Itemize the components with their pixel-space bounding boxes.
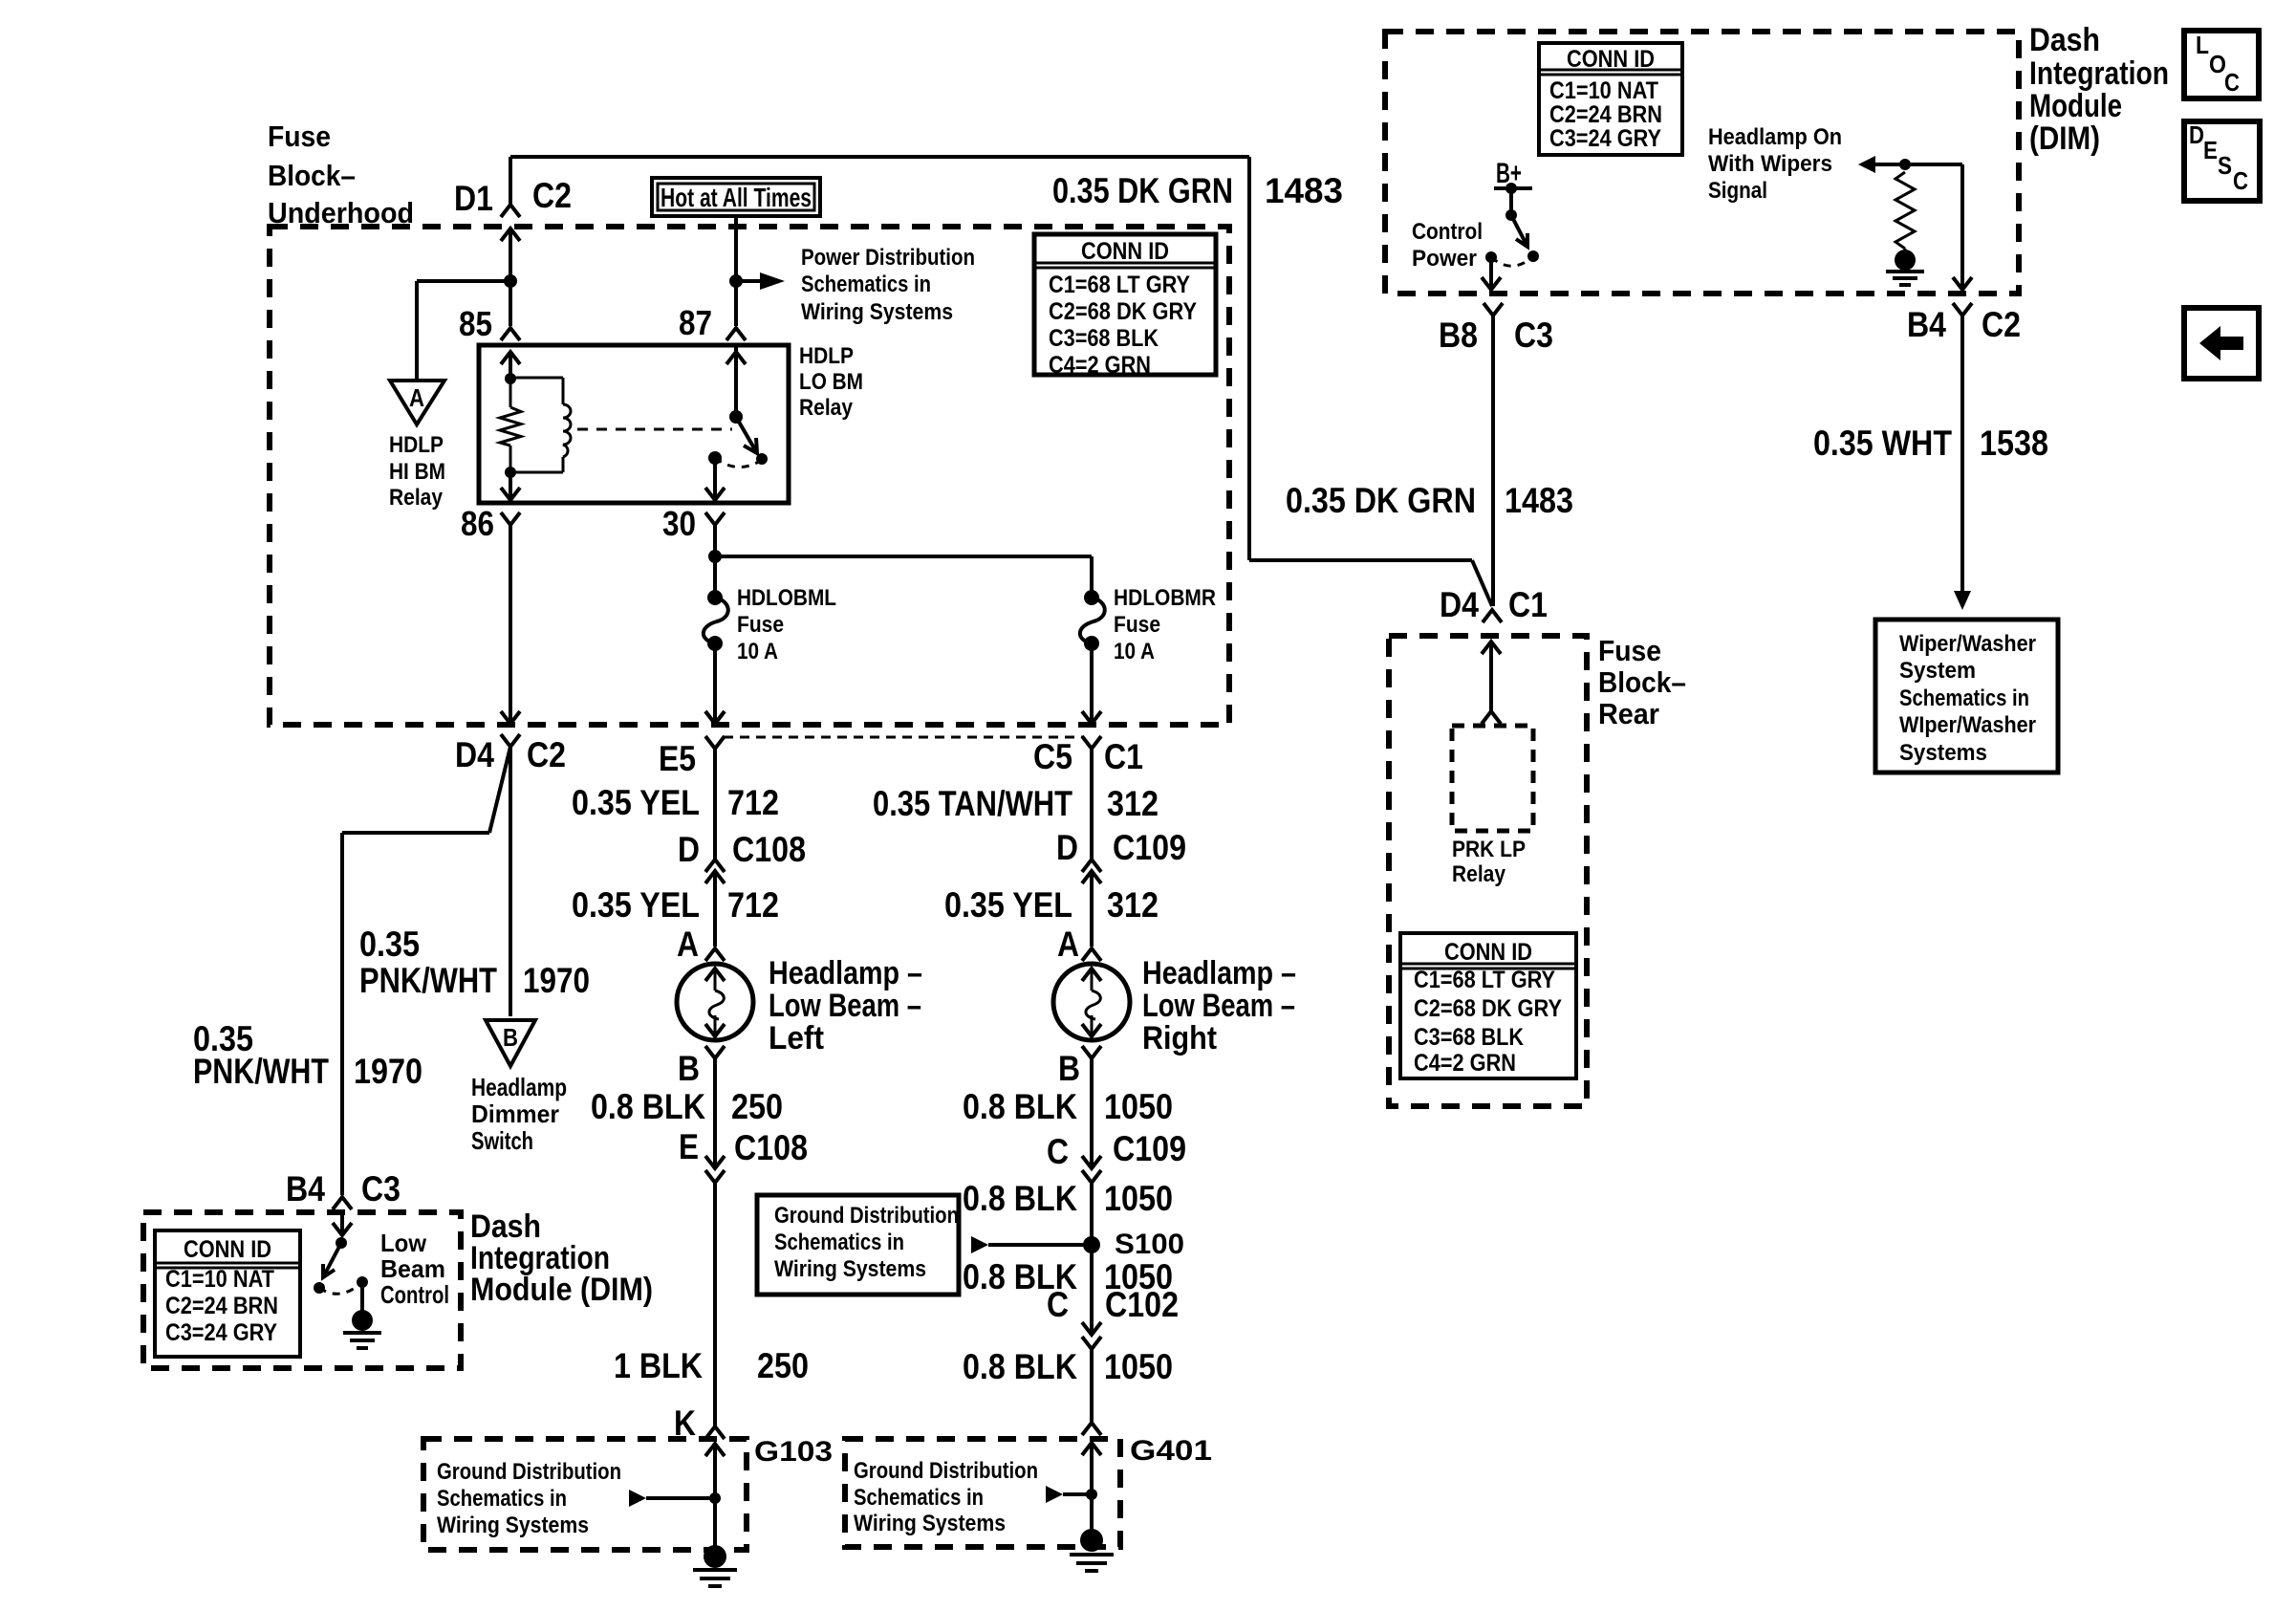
- svg-text:G103: G103: [754, 1436, 833, 1468]
- svg-text:312: 312: [1107, 784, 1159, 823]
- label fuse block rear: [1598, 634, 1686, 730]
- svg-text:Headlamp On: Headlamp On: [1708, 124, 1842, 150]
- svg-text:0.35 YEL: 0.35 YEL: [572, 885, 700, 925]
- connector B4/C3: [286, 1169, 401, 1209]
- svg-text:D: D: [678, 830, 700, 869]
- relay switch dashed arc: [715, 458, 762, 468]
- connector C/C109: [1047, 1129, 1186, 1183]
- wire into rear block: [1482, 642, 1501, 711]
- svg-text:C4=2 GRN: C4=2 GRN: [1049, 352, 1151, 379]
- label headlamp on with wipers signal: [1708, 124, 1842, 204]
- svg-text:1538: 1538: [1980, 424, 2048, 463]
- wire C109 to S100: [1090, 1183, 1094, 1245]
- wire branch to HDLOBMR fuse: [715, 556, 1092, 598]
- svg-text:D: D: [2189, 120, 2204, 149]
- fuse HDLOBML: [704, 590, 728, 651]
- svg-text:Schematics in: Schematics in: [437, 1486, 567, 1512]
- label low beam control: [380, 1229, 449, 1309]
- splice S100: [1083, 1229, 1184, 1260]
- label HDLP HI BM Relay: [389, 432, 445, 511]
- svg-text:Systems: Systems: [1899, 740, 1987, 766]
- svg-text:D4: D4: [455, 735, 494, 774]
- wire lamp right to C109: [1090, 1058, 1094, 1166]
- wire C5 to C109: [1090, 749, 1094, 860]
- connector D/C108: [678, 830, 806, 883]
- svg-text:87: 87: [679, 303, 712, 342]
- label HDLOBMR fuse: [1114, 585, 1216, 664]
- svg-text:(DIM): (DIM): [2029, 120, 2100, 157]
- label 0.8 BLK 1050 b: [963, 1179, 1173, 1218]
- svg-text:Module (DIM): Module (DIM): [470, 1272, 653, 1308]
- svg-text:B4: B4: [286, 1169, 325, 1208]
- svg-text:B: B: [1058, 1049, 1080, 1088]
- arrow to power distribution: [736, 272, 785, 290]
- wiper washer box: [1875, 620, 2058, 773]
- svg-text:B8: B8: [1439, 316, 1478, 355]
- svg-text:C2: C2: [527, 735, 566, 774]
- ground G103 dashed box: [423, 1436, 833, 1550]
- label 0.8 BLK 1050 d: [963, 1347, 1173, 1386]
- svg-text:C2=24 BRN: C2=24 BRN: [1549, 101, 1662, 128]
- svg-text:C109: C109: [1113, 828, 1186, 867]
- svg-text:Wiring Systems: Wiring Systems: [774, 1256, 926, 1282]
- svg-text:C: C: [2233, 166, 2248, 195]
- ground low beam control: [343, 1310, 381, 1348]
- label 0.35 YEL 712 lower: [572, 885, 779, 925]
- svg-text:312: 312: [1107, 885, 1159, 925]
- svg-text:Block–: Block–: [1598, 665, 1686, 699]
- svg-text:C102: C102: [1105, 1285, 1179, 1324]
- relay actuation dashed link: [577, 428, 732, 431]
- svg-text:C2=68 DK GRY: C2=68 DK GRY: [1049, 298, 1197, 325]
- relay coil-side pin85 arrow: [501, 352, 520, 379]
- wiper signal arrow: [1858, 156, 1962, 173]
- connector D4/C2: [455, 734, 566, 774]
- wire S100 to C102: [1090, 1245, 1094, 1333]
- label 0.35 YEL 312: [944, 885, 1159, 925]
- DIM bottom dashed box: [143, 1212, 461, 1368]
- svg-text:C1=10 NAT: C1=10 NAT: [165, 1266, 274, 1293]
- svg-text:E: E: [2203, 136, 2218, 164]
- label control power: [1412, 219, 1483, 272]
- relay switch pivot: [726, 345, 746, 424]
- svg-text:0.8 BLK: 0.8 BLK: [963, 1347, 1077, 1386]
- svg-text:C3=68 BLK: C3=68 BLK: [1049, 325, 1159, 352]
- svg-text:C1: C1: [1104, 737, 1143, 776]
- svg-text:Relay: Relay: [1452, 861, 1506, 887]
- svg-text:D1: D1: [454, 179, 493, 218]
- connector B8/C3: [1439, 303, 1553, 355]
- label 0.35 YEL 712 upper: [572, 783, 779, 822]
- svg-text:Headlamp –: Headlamp –: [769, 955, 922, 991]
- connector pin 85: [459, 304, 520, 343]
- wire to HDLP HI BM relay tap: [417, 281, 510, 380]
- svg-text:Control: Control: [1412, 219, 1483, 245]
- wire C102 to G401: [1090, 1349, 1094, 1423]
- svg-text:CONN ID: CONN ID: [1081, 238, 1169, 265]
- svg-text:S100: S100: [1115, 1229, 1184, 1260]
- svg-text:HDLP: HDLP: [799, 343, 854, 369]
- wire lamp left to C108: [713, 1058, 717, 1166]
- svg-text:0.8 BLK: 0.8 BLK: [963, 1179, 1077, 1218]
- connector C/C102: [1047, 1285, 1179, 1349]
- connector pin A right: [1057, 925, 1101, 964]
- DIM top dashed box: [1385, 32, 2019, 294]
- svg-text:HDLOBML: HDLOBML: [737, 585, 836, 611]
- fuse block rear dashed box: [1389, 636, 1587, 1106]
- svg-text:System: System: [1899, 658, 1976, 684]
- svg-text:C1: C1: [1508, 585, 1548, 624]
- label PRK LP relay: [1452, 837, 1526, 887]
- svg-text:HDLP: HDLP: [389, 432, 444, 458]
- svg-text:Low: Low: [380, 1229, 427, 1257]
- wire headlamp dimmer feed: [509, 747, 512, 1016]
- svg-text:PNK/WHT: PNK/WHT: [193, 1052, 329, 1091]
- wire 0.35 DK GRN 1483 top run: [510, 157, 1492, 606]
- relay resistor: [500, 379, 521, 472]
- svg-text:Schematics in: Schematics in: [774, 1230, 904, 1255]
- svg-text:0.35 YEL: 0.35 YEL: [572, 783, 700, 822]
- svg-text:C: C: [2224, 68, 2240, 97]
- svg-text:D4: D4: [1440, 585, 1479, 624]
- svg-text:LO BM: LO BM: [799, 369, 863, 395]
- svg-text:Ground Distribution: Ground Distribution: [854, 1458, 1038, 1484]
- label 0.35 WHT 1538: [1813, 424, 2048, 463]
- svg-text:Dash: Dash: [2029, 22, 2100, 58]
- label 0.35 DK GRN: [1052, 171, 1233, 210]
- junction node: [505, 373, 516, 384]
- svg-text:C3: C3: [361, 1169, 401, 1208]
- svg-text:1050: 1050: [1104, 1087, 1173, 1126]
- svg-text:Right: Right: [1142, 1020, 1217, 1056]
- label 0.35 TAN/WHT 312: [873, 784, 1159, 823]
- svg-text:C3=24 GRY: C3=24 GRY: [165, 1319, 277, 1346]
- svg-text:1970: 1970: [523, 961, 590, 1000]
- svg-text:712: 712: [727, 783, 779, 822]
- arrow into S100: [971, 1236, 1092, 1253]
- svg-text:10 A: 10 A: [737, 639, 778, 664]
- svg-text:Fuse: Fuse: [737, 612, 784, 638]
- svg-text:Wiring Systems: Wiring Systems: [437, 1513, 589, 1538]
- hot at all times box: [652, 178, 820, 216]
- svg-text:Fuse: Fuse: [1598, 634, 1661, 667]
- svg-text:250: 250: [757, 1346, 809, 1385]
- relay switch arm: [736, 417, 768, 465]
- connector B4/C2: [1907, 303, 2021, 344]
- svg-text:C3: C3: [1514, 316, 1553, 355]
- junction node: [1086, 1489, 1097, 1500]
- label power distribution schematics: [801, 245, 975, 325]
- label dash integration module bottom: [470, 1208, 653, 1308]
- connector pin A left: [677, 925, 725, 964]
- label headlamp low beam left: [769, 955, 922, 1056]
- label ground distribution G401: [854, 1458, 1038, 1536]
- wire C108 to G103: [713, 1183, 717, 1426]
- connector D1/C2: [454, 176, 572, 241]
- wire below HDLOBML fuse: [705, 643, 725, 724]
- svg-text:C1=68 LT GRY: C1=68 LT GRY: [1049, 272, 1190, 298]
- svg-text:Block–: Block–: [268, 159, 356, 192]
- svg-text:C108: C108: [732, 830, 806, 869]
- headlamp low beam left lamp: [677, 964, 753, 1040]
- DESC box: [2184, 120, 2260, 201]
- wire wiper signal down: [1953, 164, 1972, 290]
- svg-text:L: L: [2196, 31, 2209, 59]
- wiper signal resistor: [1895, 172, 1915, 252]
- conn id box DIM top: [1539, 43, 1682, 155]
- label 1 BLK 250: [614, 1346, 809, 1385]
- svg-text:Headlamp: Headlamp: [471, 1073, 567, 1101]
- svg-text:A: A: [677, 925, 699, 964]
- wire B8 to D4: [1491, 316, 1495, 606]
- svg-text:C2: C2: [532, 176, 572, 215]
- junction node: [1899, 159, 1911, 170]
- wire diagonal branch to B4/C3: [342, 747, 510, 1195]
- svg-text:D: D: [1056, 828, 1078, 867]
- triangle B headlamp dimmer switch: [486, 1020, 535, 1066]
- svg-text:Left: Left: [769, 1020, 824, 1056]
- back arrow box: [2184, 308, 2259, 379]
- connector G401 fork: [1082, 1423, 1101, 1435]
- label 0.8 BLK 1050 a: [963, 1087, 1173, 1126]
- svg-text:Ground Distribution: Ground Distribution: [437, 1459, 621, 1485]
- svg-text:E5: E5: [659, 739, 696, 778]
- svg-text:30: 30: [662, 504, 696, 543]
- fuse block underhood dashed box: [270, 227, 1229, 725]
- svg-text:1483: 1483: [1505, 481, 1573, 520]
- svg-text:Module: Module: [2029, 88, 2122, 124]
- svg-text:WIper/Washer: WIper/Washer: [1899, 712, 2036, 738]
- connector D/C109: [1056, 828, 1186, 883]
- svg-text:Relay: Relay: [799, 395, 854, 421]
- svg-text:Wiring Systems: Wiring Systems: [854, 1511, 1006, 1536]
- junction node: [729, 274, 743, 288]
- fuse block underhood label: [268, 120, 414, 229]
- svg-text:E: E: [679, 1127, 699, 1166]
- connector pin 87: [679, 303, 746, 342]
- headlamp low beam right lamp: [1053, 964, 1130, 1040]
- svg-text:C109: C109: [1113, 1129, 1186, 1168]
- svg-text:C: C: [1047, 1285, 1069, 1324]
- svg-text:PNK/WHT: PNK/WHT: [359, 961, 497, 1000]
- svg-text:1970: 1970: [354, 1052, 422, 1091]
- wire into DIM arrow: [333, 1212, 352, 1235]
- label 0.8 BLK 1050 c: [963, 1257, 1173, 1296]
- svg-text:Signal: Signal: [1708, 178, 1767, 204]
- svg-text:B: B: [678, 1049, 700, 1088]
- svg-text:C: C: [1047, 1132, 1069, 1171]
- svg-text:Relay: Relay: [389, 485, 444, 511]
- svg-text:PRK LP: PRK LP: [1452, 837, 1526, 862]
- svg-text:Dimmer: Dimmer: [471, 1099, 559, 1128]
- svg-text:Schematics in: Schematics in: [801, 272, 931, 297]
- lamp area dashed divider: [724, 736, 1083, 739]
- arrow into G401 ground: [1046, 1486, 1092, 1503]
- svg-text:10 A: 10 A: [1114, 639, 1155, 664]
- svg-text:With Wipers: With Wipers: [1708, 151, 1832, 177]
- triangle A HDLP HI BM relay: [390, 381, 444, 425]
- svg-text:C3=24 GRY: C3=24 GRY: [1549, 125, 1661, 152]
- svg-text:1050: 1050: [1104, 1179, 1173, 1218]
- svg-text:85: 85: [459, 304, 492, 343]
- svg-text:Control: Control: [380, 1280, 449, 1309]
- svg-text:1050: 1050: [1104, 1347, 1173, 1386]
- wire into G103: [705, 1444, 725, 1546]
- relay pin86 exit arrow: [501, 472, 520, 500]
- svg-text:0.35 YEL: 0.35 YEL: [944, 885, 1072, 925]
- wire below HDLOBMR fuse: [1082, 643, 1101, 724]
- svg-text:Headlamp –: Headlamp –: [1142, 955, 1296, 991]
- svg-text:C4=2 GRN: C4=2 GRN: [1414, 1050, 1516, 1077]
- arrow into wiper washer box: [1954, 591, 1971, 610]
- svg-text:A: A: [409, 383, 424, 412]
- svg-text:Wiper/Washer: Wiper/Washer: [1899, 631, 2036, 657]
- wire hot-at-all-times down: [734, 216, 738, 326]
- wire B4/C2 down: [1960, 316, 1964, 593]
- svg-text:C1=10 NAT: C1=10 NAT: [1549, 77, 1658, 104]
- svg-text:0.35 WHT: 0.35 WHT: [1813, 424, 1952, 463]
- svg-text:C108: C108: [734, 1128, 808, 1167]
- svg-text:Low Beam –: Low Beam –: [769, 988, 921, 1024]
- wire into G401: [1082, 1443, 1101, 1530]
- relay HDLP LO BM box: [479, 345, 789, 503]
- svg-text:Integration: Integration: [2029, 55, 2169, 92]
- svg-text:Switch: Switch: [471, 1126, 533, 1155]
- label HDLOBML fuse: [737, 585, 836, 664]
- connector pin B right: [1058, 1046, 1101, 1088]
- svg-text:B: B: [503, 1023, 518, 1052]
- svg-text:86: 86: [461, 504, 494, 543]
- connector C5/C1: [1033, 736, 1143, 776]
- label headlamp low beam right: [1142, 955, 1296, 1056]
- svg-text:B4: B4: [1907, 305, 1946, 344]
- label HDLP LO BM Relay: [799, 343, 863, 421]
- ground distribution solid box: [757, 1195, 959, 1295]
- svg-text:A: A: [1057, 925, 1079, 964]
- wire C109 to lamp: [1090, 871, 1094, 947]
- svg-text:C5: C5: [1033, 737, 1072, 776]
- fuse HDLOBMR: [1080, 590, 1105, 651]
- svg-text:C2=68 DK GRY: C2=68 DK GRY: [1414, 995, 1562, 1022]
- junction node: [709, 1492, 721, 1504]
- arrow into G103 ground: [629, 1490, 715, 1507]
- ground wiper resistor: [1886, 250, 1924, 285]
- connector E5: [659, 711, 725, 778]
- junction node: [708, 550, 722, 563]
- connector K/G103: [674, 1404, 725, 1443]
- label 0.8 BLK 250: [591, 1087, 783, 1126]
- ground G103: [693, 1545, 737, 1586]
- svg-text:Schematics in: Schematics in: [854, 1485, 984, 1511]
- svg-text:HDLOBMR: HDLOBMR: [1114, 585, 1216, 611]
- relay contact 30: [705, 451, 725, 500]
- wire pin86 down: [501, 525, 520, 724]
- svg-text:0.8 BLK: 0.8 BLK: [963, 1087, 1077, 1126]
- wire C108 to lamp: [713, 871, 717, 947]
- svg-text:Low Beam –: Low Beam –: [1142, 988, 1295, 1024]
- wire E5 to C108: [713, 749, 717, 860]
- svg-text:Wiring Systems: Wiring Systems: [801, 299, 953, 325]
- svg-text:HI BM: HI BM: [389, 459, 445, 485]
- label 0.35 PNK/WHT 1970 (dimmer wire): [359, 925, 590, 1000]
- svg-text:S: S: [2218, 151, 2232, 180]
- junction node: [504, 274, 517, 288]
- wire D1 pin into block: [509, 229, 512, 281]
- label dash integration module top: [2029, 22, 2169, 157]
- conn id box underhood: [1034, 234, 1216, 379]
- connector pin B left: [678, 1046, 725, 1088]
- junction node: [505, 467, 516, 478]
- svg-text:C2=24 BRN: C2=24 BRN: [165, 1293, 278, 1319]
- conn id box DIM bottom: [155, 1230, 300, 1357]
- label 0.35 DK GRN 1483 mid: [1286, 481, 1573, 520]
- PRK LP relay dashed box: [1452, 726, 1533, 831]
- svg-text:Schematics in: Schematics in: [1899, 686, 2029, 711]
- svg-text:Fuse: Fuse: [1114, 612, 1160, 638]
- svg-text:G401: G401: [1130, 1435, 1212, 1467]
- label headlamp dimmer switch: [471, 1073, 567, 1155]
- relay coil: [510, 378, 571, 472]
- svg-text:712: 712: [727, 885, 779, 925]
- svg-text:C1=68 LT GRY: C1=68 LT GRY: [1414, 967, 1555, 993]
- ground G401 dashed box: [845, 1435, 1212, 1547]
- label B+: [1496, 158, 1522, 189]
- svg-text:Fuse: Fuse: [268, 120, 331, 153]
- svg-text:Ground Distribution: Ground Distribution: [774, 1203, 959, 1229]
- conn id box rear: [1400, 933, 1576, 1078]
- label ground distribution G103: [437, 1459, 621, 1538]
- wire pin30 down: [713, 525, 717, 598]
- low beam control switch: [314, 1237, 368, 1312]
- svg-text:0.35 DK GRN: 0.35 DK GRN: [1286, 481, 1476, 520]
- svg-text:0.35: 0.35: [359, 925, 420, 964]
- svg-text:C2: C2: [1982, 305, 2021, 344]
- svg-text:CONN ID: CONN ID: [1444, 939, 1532, 966]
- control power switch: [1482, 183, 1539, 290]
- connector pin 86: [461, 504, 520, 543]
- connector pin 30: [662, 504, 725, 543]
- svg-text:0.8 BLK: 0.8 BLK: [591, 1087, 705, 1126]
- wire pin85: [509, 281, 512, 326]
- label 0.35 PNK/WHT 1970 (DIM wire): [193, 1019, 422, 1091]
- svg-text:Rear: Rear: [1598, 697, 1659, 730]
- connector E/C108: [679, 1127, 808, 1183]
- label 1483: [1265, 171, 1343, 210]
- svg-text:Power: Power: [1412, 246, 1477, 272]
- svg-text:C3=68 BLK: C3=68 BLK: [1414, 1024, 1524, 1051]
- svg-text:1 BLK: 1 BLK: [614, 1346, 703, 1385]
- LOC box: [2184, 31, 2259, 98]
- svg-text:0.35 TAN/WHT: 0.35 TAN/WHT: [873, 784, 1072, 823]
- connector D4/C1: [1440, 585, 1548, 624]
- svg-text:Beam: Beam: [380, 1254, 445, 1283]
- svg-text:1483: 1483: [1265, 171, 1343, 210]
- ground G401: [1070, 1529, 1114, 1571]
- svg-text:Power Distribution: Power Distribution: [801, 245, 975, 271]
- svg-text:0.35 DK GRN: 0.35 DK GRN: [1052, 171, 1233, 210]
- connector into PRK LP relay: [1482, 711, 1501, 724]
- svg-text:250: 250: [731, 1087, 783, 1126]
- svg-text:CONN ID: CONN ID: [184, 1236, 271, 1263]
- svg-text:Hot at All Times: Hot at All Times: [661, 183, 812, 212]
